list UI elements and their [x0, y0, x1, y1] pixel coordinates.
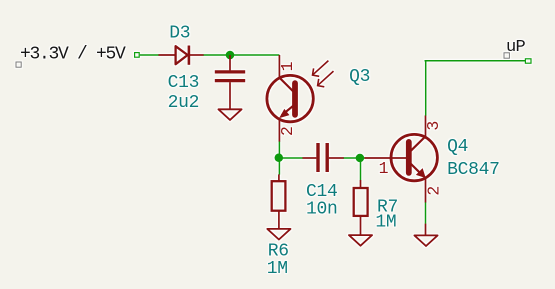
svg-text:3: 3	[424, 121, 443, 131]
transistor Q4 emitter arrowhead	[417, 169, 425, 177]
transistor Q3 pin1 (collector) lead	[278, 55, 280, 79]
ground symbol (C13)	[218, 109, 241, 120]
svg-text:uP: uP	[506, 38, 526, 57]
svg-text:BC847: BC847	[447, 160, 500, 180]
svg-text:2: 2	[425, 186, 444, 196]
diode D3 anode lead	[159, 54, 176, 56]
wire: Q4 collector up	[425, 61, 427, 116]
svg-text:2: 2	[278, 126, 297, 136]
transistor Q3 base bar	[292, 83, 298, 115]
resistor R7 body	[354, 188, 368, 216]
wire: C14 to R7 node	[344, 157, 366, 159]
wire: Q3 emitter down to node row	[278, 142, 280, 175]
wire: diode to Q3 collector corner	[204, 54, 280, 56]
svg-text:Q3: Q3	[349, 67, 370, 87]
resistor R6 top lead	[278, 174, 280, 181]
svg-text:1M: 1M	[267, 259, 288, 279]
diode D3 cathode lead	[189, 54, 204, 56]
capacitor C13 top lead	[229, 55, 231, 70]
capacitor C14 left lead	[303, 157, 317, 159]
transistor Q3 collector stroke	[279, 78, 293, 92]
junction node right (R7 tap)	[356, 154, 365, 163]
transistor Q4 pin2 lead	[425, 178, 427, 203]
junction node left (R6 tap)	[275, 153, 284, 162]
ground lead (Q4)	[425, 224, 427, 236]
hierarchical label anchor square (gray)	[504, 53, 509, 58]
transistor Q3 emitter stroke	[282, 106, 293, 115]
capacitor C14 plates	[316, 143, 319, 172]
resistor R6 bottom lead	[278, 211, 280, 229]
light arrow 1 into Q3	[313, 61, 329, 75]
light arrow 2 into Q3	[318, 71, 334, 85]
resistor R7 top lead	[360, 180, 362, 188]
svg-text:1: 1	[379, 159, 389, 178]
svg-text:1: 1	[278, 61, 297, 71]
global label square uP (green)	[525, 59, 531, 63]
ground symbol (R6)	[267, 229, 290, 240]
transistor Q3 body circle	[267, 75, 313, 121]
wire: top run to uP	[425, 60, 526, 62]
wire: left square to diode	[140, 54, 159, 56]
svg-text:D3: D3	[169, 24, 190, 44]
global label square (left, green)	[135, 53, 140, 58]
ground symbol (Q4)	[414, 235, 437, 246]
transistor Q4 body circle	[391, 134, 437, 180]
svg-text:C13: C13	[168, 73, 200, 93]
diode D3 cathode bar	[188, 46, 191, 65]
junction node at C13 tap	[226, 51, 235, 60]
transistor Q4 base lead	[365, 157, 408, 159]
svg-text:Q4: Q4	[447, 137, 468, 157]
transistor Q4 emitter stroke	[411, 164, 421, 174]
transistor Q4 collector stroke	[411, 136, 426, 150]
resistor R7 bottom lead	[360, 216, 362, 235]
transistor Q4 pin3 lead	[425, 115, 427, 137]
diode D3 triangle	[176, 46, 188, 64]
power net anchor square	[16, 62, 21, 67]
wire: node to C14 left lead	[279, 157, 303, 159]
capacitor C13 bottom lead	[229, 82, 231, 109]
svg-text:2u2: 2u2	[168, 93, 200, 113]
capacitor C13 plates	[215, 70, 245, 73]
capacitor C14 right lead	[329, 157, 344, 159]
transistor Q3 pin2 (emitter) lead	[278, 119, 280, 142]
wire: node down to R7	[360, 158, 362, 180]
resistor R6 body	[272, 181, 286, 211]
wire: Q4 emitter to ground	[425, 202, 427, 223]
ground symbol (R7)	[349, 235, 372, 246]
svg-text:1M: 1M	[375, 213, 396, 233]
transistor Q4 base bar	[406, 142, 412, 173]
svg-text:+3.3V / +5V: +3.3V / +5V	[20, 45, 126, 65]
transistor Q3 emitter arrowhead	[280, 110, 288, 118]
svg-text:10n: 10n	[306, 199, 338, 219]
